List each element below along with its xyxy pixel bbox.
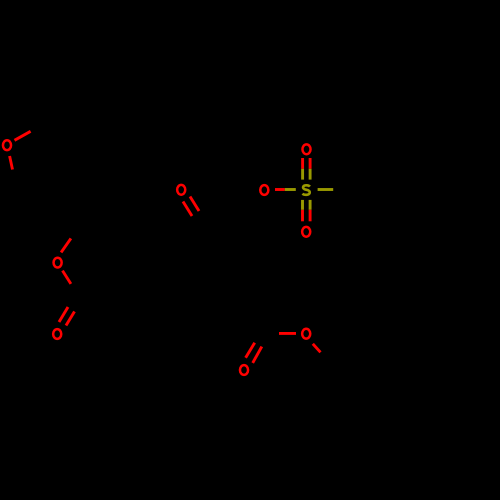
- wire C=O7 double line a: [59, 307, 68, 322]
- atom O9 (ketone O): [177, 185, 185, 195]
- wire S=O14 left line olive half: [301, 200, 304, 210]
- atom O22 (benzoate carbonyl O): [240, 365, 248, 375]
- atom O7 (lactone carbonyl O): [53, 329, 61, 339]
- wire O11-S red half: [275, 188, 285, 191]
- atom O11 (sulfonate ester O): [260, 185, 268, 195]
- wire C=O7 double line b: [66, 312, 75, 326]
- atom O19 (benzoate ester O): [302, 329, 310, 339]
- wire S=O13 left line olive half: [301, 169, 304, 180]
- wire S=O14 right line olive half: [309, 200, 312, 210]
- wire O19-C(=O) red half: [279, 332, 296, 335]
- wire C=O9 double line b: [190, 197, 199, 212]
- wire C=O9 double line a: [183, 202, 192, 217]
- wire S=O13 left line red half: [301, 158, 304, 169]
- wire S=O14 right line red half: [309, 210, 312, 222]
- wire S=O14 left line red half: [301, 210, 304, 222]
- atom O13 (S=O top): [302, 144, 310, 154]
- wire S=O13 right line red half: [309, 158, 312, 169]
- wire C=O22 double line a: [246, 343, 255, 358]
- atom S1 (sulfonyl sulfur): [303, 185, 310, 195]
- wire O19-CH2 red half: [313, 344, 321, 353]
- atom O4 (lactone ester O): [54, 258, 62, 268]
- wire S=O13 right line olive half: [309, 169, 312, 180]
- wire O4-C up-right: [61, 238, 71, 252]
- wire O11-S olive half: [285, 188, 296, 191]
- atom O14 (S=O bottom): [302, 227, 310, 237]
- atom O1 (top-left ring oxygen): [3, 140, 11, 150]
- wire O1-C down: [10, 156, 13, 170]
- wire O4-C down-right: [63, 271, 71, 284]
- wire C=O22 double line b: [253, 347, 262, 363]
- wire S-C(tolyl) olive half: [318, 188, 334, 191]
- wire O1-C up-right: [15, 131, 31, 140]
